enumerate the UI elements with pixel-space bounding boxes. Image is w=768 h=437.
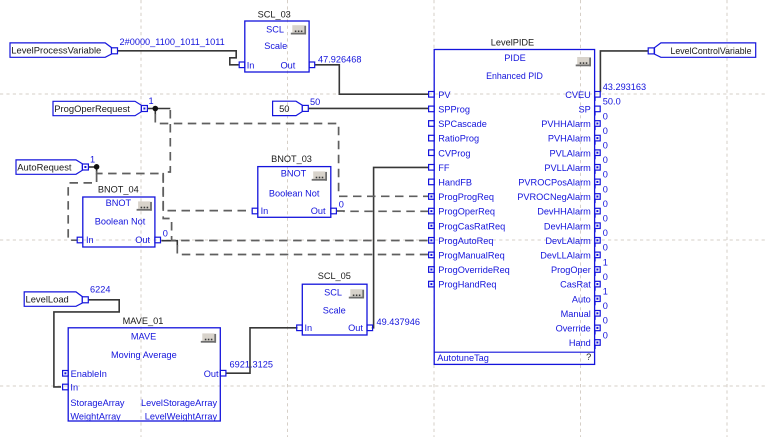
svg-text:ProgCasRatReq: ProgCasRatReq: [438, 221, 505, 231]
svg-text:WeightArray: WeightArray: [70, 411, 121, 421]
wire MAVE_01.Out to SCL_05.In: [226, 328, 297, 373]
svg-text:ProgHandReq: ProgHandReq: [438, 280, 496, 290]
svg-text:SCL_05: SCL_05: [318, 271, 351, 281]
svg-text:SCL: SCL: [266, 24, 284, 34]
svg-text:LevelStorageArray: LevelStorageArray: [141, 398, 217, 408]
svg-text:LevelControlVariable: LevelControlVariable: [671, 46, 752, 56]
svg-text:1: 1: [603, 257, 608, 267]
svg-text:PVLLAlarm: PVLLAlarm: [544, 163, 591, 173]
svg-text:PVROCNegAlarm: PVROCNegAlarm: [517, 192, 591, 202]
svg-text:Out: Out: [280, 60, 295, 70]
svg-text:MAVE: MAVE: [131, 332, 156, 342]
svg-text:StorageArray: StorageArray: [70, 398, 125, 408]
svg-text:LevelPIDE: LevelPIDE: [491, 37, 534, 47]
svg-text:ProgManualReq: ProgManualReq: [438, 251, 504, 261]
svg-text:PIDE: PIDE: [504, 53, 525, 63]
wire LevelProcessVariable to SCL_03.In: [118, 51, 239, 65]
function block MAVE_01 (Moving Average): [63, 316, 226, 421]
svg-text:0: 0: [603, 184, 608, 194]
wire ProgOperRequest to LevelPIDE.ProgProgReq: [155, 114, 428, 196]
svg-text:Boolean Not: Boolean Not: [269, 188, 320, 198]
svg-text:0: 0: [603, 330, 608, 340]
svg-text:AutoRequest: AutoRequest: [17, 162, 72, 173]
junction node ProgOperRequest: [153, 106, 159, 112]
svg-text:ProgProgReq: ProgProgReq: [438, 192, 494, 202]
svg-text:SCL: SCL: [324, 288, 342, 298]
wire AutoRequest stub right: [89, 166, 97, 168]
svg-text:AutotuneTag: AutotuneTag: [437, 353, 489, 363]
svg-text:1: 1: [90, 154, 95, 164]
svg-text:LevelWeightArray: LevelWeightArray: [145, 411, 218, 421]
svg-text:0: 0: [163, 229, 168, 239]
svg-text:DevLLAlarm: DevLLAlarm: [540, 251, 591, 261]
svg-text:SPProg: SPProg: [438, 105, 470, 115]
svg-text:6224: 6224: [90, 284, 110, 294]
svg-text:LevelLoad: LevelLoad: [26, 294, 69, 305]
svg-text:PVLAlarm: PVLAlarm: [549, 148, 591, 158]
svg-text:0: 0: [603, 155, 608, 165]
input reference ProgOperRequest: [53, 101, 147, 115]
svg-text:Out: Out: [311, 206, 326, 216]
svg-text:LevelProcessVariable: LevelProcessVariable: [11, 45, 101, 56]
svg-text:Out: Out: [348, 323, 363, 333]
input reference LevelLoad: [24, 292, 88, 306]
svg-text:BNOT: BNOT: [281, 168, 307, 178]
input reference LevelProcessVariable: [10, 43, 118, 57]
function block BNOT_04 (Boolean Not): [77, 185, 160, 247]
svg-text:EnableIn: EnableIn: [71, 369, 107, 379]
svg-text:Auto: Auto: [572, 294, 591, 304]
svg-text:PV: PV: [438, 90, 451, 100]
svg-text:47.926468: 47.926468: [318, 54, 361, 64]
svg-text:1: 1: [149, 96, 154, 106]
svg-text:Out: Out: [135, 235, 150, 245]
svg-text:In: In: [70, 382, 78, 392]
wire ProgOperRequest to BNOT_03.In: [163, 110, 252, 211]
svg-text:6921.3125: 6921.3125: [230, 359, 273, 369]
svg-text:0: 0: [339, 200, 344, 210]
svg-text:Enhanced PID: Enhanced PID: [486, 71, 543, 81]
function block SCL_05 (Scale): [297, 271, 373, 335]
svg-text:MAVE_01: MAVE_01: [123, 316, 164, 326]
svg-text:PVHHAlarm: PVHHAlarm: [541, 119, 591, 129]
svg-text:ProgOverrideReq: ProgOverrideReq: [438, 265, 510, 275]
svg-text:SCL_03: SCL_03: [258, 10, 291, 20]
svg-text:0: 0: [603, 272, 608, 282]
svg-text:0: 0: [603, 301, 608, 311]
svg-text:43.293163: 43.293163: [603, 82, 646, 92]
svg-text:RatioProg: RatioProg: [438, 134, 479, 144]
function block SCL_03 (Scale): [239, 10, 315, 72]
svg-text:0: 0: [603, 316, 608, 326]
svg-text:0: 0: [603, 243, 608, 253]
wire AutoRequest to LevelPIDE.ProgAutoReq: [97, 171, 429, 241]
wire SCL_03.Out to LevelPIDE.PV: [315, 65, 429, 94]
svg-text:50.0: 50.0: [603, 97, 621, 107]
wire ProgOperRequest stub down: [154, 109, 156, 115]
svg-text:0: 0: [603, 126, 608, 136]
input reference AutoRequest: [16, 160, 88, 174]
svg-text:ProgAutoReq: ProgAutoReq: [438, 236, 493, 246]
wire AutoRequest to BNOT_04.In: [68, 174, 96, 241]
svg-text:0: 0: [603, 214, 608, 224]
wire LevelPIDE.CVEU to LevelControlVariable: [600, 51, 648, 92]
svg-text:BNOT_04: BNOT_04: [98, 185, 139, 195]
svg-text:Out: Out: [204, 369, 219, 379]
svg-text:ProgOperRequest: ProgOperRequest: [54, 103, 130, 114]
svg-text:0: 0: [603, 228, 608, 238]
svg-text:50: 50: [310, 97, 320, 107]
wire 50 tag to LevelPIDE.SPProg: [308, 107, 429, 109]
junction node AutoRequest: [94, 164, 100, 170]
svg-text:Scale: Scale: [264, 41, 287, 51]
svg-text:CVProg: CVProg: [438, 148, 470, 158]
svg-text:CVEU: CVEU: [565, 90, 591, 100]
svg-text:ProgOper: ProgOper: [551, 265, 591, 275]
svg-text:Manual: Manual: [561, 309, 591, 319]
svg-text:FF: FF: [438, 163, 450, 173]
svg-text:0: 0: [603, 111, 608, 121]
svg-text:1: 1: [603, 287, 608, 297]
svg-text:In: In: [86, 235, 94, 245]
wire ProgOperRequest stub right: [147, 108, 170, 110]
svg-text:DevHHAlarm: DevHHAlarm: [537, 207, 591, 217]
svg-text:?: ?: [586, 352, 591, 362]
svg-text:PVROCPosAlarm: PVROCPosAlarm: [518, 178, 591, 188]
svg-text:0: 0: [603, 170, 608, 180]
output reference LevelControlVariable: [648, 43, 756, 57]
svg-text:Hand: Hand: [569, 338, 591, 348]
function block LevelPIDE (Enhanced PID): [429, 37, 621, 364]
svg-text:50: 50: [279, 103, 289, 114]
wire BNOT_03.Out to LevelPIDE.ProgOperReq: [337, 210, 429, 212]
wire LevelLoad to MAVE_01.In: [54, 300, 119, 387]
wire AutoRequest stub down: [96, 167, 98, 172]
svg-text:SPCascade: SPCascade: [438, 119, 487, 129]
svg-text:SP: SP: [579, 105, 591, 115]
svg-text:HandFB: HandFB: [438, 178, 472, 188]
svg-text:In: In: [247, 60, 255, 70]
svg-text:BNOT: BNOT: [106, 198, 132, 208]
input literal 50: [273, 101, 309, 115]
svg-text:BNOT_03: BNOT_03: [271, 154, 312, 164]
wire BNOT_04.Out to LevelPIDE.ProgManualReq: [177, 245, 428, 255]
svg-text:0: 0: [603, 199, 608, 209]
svg-text:DevHAlarm: DevHAlarm: [544, 221, 591, 231]
svg-text:0: 0: [603, 141, 608, 151]
svg-text:2#0000_1100_1011_1011: 2#0000_1100_1011_1011: [120, 37, 225, 47]
function block BNOT_03 (Boolean Not): [252, 154, 336, 217]
svg-text:Moving Average: Moving Average: [111, 350, 177, 360]
svg-text:DevLAlarm: DevLAlarm: [545, 236, 591, 246]
svg-text:In: In: [261, 206, 269, 216]
wire SCL_05.Out to LevelPIDE.FF: [372, 167, 429, 327]
svg-text:Override: Override: [556, 324, 591, 334]
svg-text:Scale: Scale: [323, 306, 346, 316]
wire BNOT_04.Out stub: [161, 241, 177, 247]
svg-text:CasRat: CasRat: [560, 280, 591, 290]
svg-text:Boolean Not: Boolean Not: [95, 217, 146, 227]
svg-text:49.437946: 49.437946: [377, 317, 420, 327]
svg-text:PVHAlarm: PVHAlarm: [548, 134, 591, 144]
svg-text:ProgOperReq: ProgOperReq: [438, 207, 495, 217]
svg-text:In: In: [305, 323, 313, 333]
